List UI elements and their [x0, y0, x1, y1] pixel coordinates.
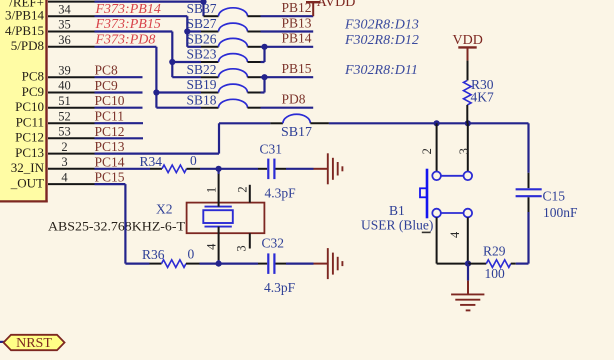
svg-text:SB22: SB22: [187, 62, 217, 77]
svg-text:PC14: PC14: [95, 154, 125, 169]
ground (button): [451, 281, 484, 311]
svg-text:2: 2: [236, 186, 250, 192]
svg-text:R36: R36: [142, 247, 165, 262]
wire PB12: [261, 15, 314, 17]
junction button bottom: [465, 261, 471, 267]
wire pin36 to SB19/SB18 riser: [95, 47, 202, 108]
pin 4: [48, 170, 95, 184]
svg-text:C31: C31: [260, 141, 283, 156]
solder bridge SB26: [187, 31, 261, 46]
junction PB14/SB23: [261, 44, 267, 50]
svg-text:C32: C32: [262, 235, 285, 250]
svg-text:53: 53: [58, 125, 71, 139]
wire PC15 to R36: [95, 184, 150, 264]
wire SB19 to PB15: [261, 77, 265, 92]
svg-text:4/PB15: 4/PB15: [5, 23, 44, 38]
svg-text:PB13: PB13: [282, 15, 312, 30]
svg-text:PC9: PC9: [22, 84, 44, 99]
ground (C31, rotated): [314, 153, 343, 184]
svg-text:1: 1: [204, 187, 218, 193]
svg-text:B1: B1: [389, 203, 405, 218]
pin VREF+: [48, 1, 95, 3]
svg-text:3/PB14: 3/PB14: [5, 8, 45, 23]
pin 35: [48, 18, 95, 32]
svg-text:2: 2: [420, 148, 434, 154]
pin 53: [48, 125, 95, 139]
capacitor C31: [258, 141, 296, 200]
solder bridge SB23: [187, 47, 261, 62]
crystal pin 1: [204, 169, 218, 207]
svg-text:5/PD8: 5/PD8: [11, 38, 44, 53]
pin 3: [48, 155, 95, 169]
wire PC13 to SB17: [95, 123, 271, 153]
svg-text:2: 2: [61, 140, 67, 154]
svg-text:4: 4: [448, 231, 462, 238]
svg-text:X2: X2: [156, 202, 173, 217]
svg-text:4.3pF: 4.3pF: [264, 280, 296, 295]
svg-text:PB15: PB15: [282, 61, 312, 76]
svg-text:100nF: 100nF: [543, 205, 578, 220]
junction pin34 riser: [184, 28, 190, 34]
junction OSC32_IN: [216, 166, 222, 172]
svg-text:PC10: PC10: [95, 93, 125, 108]
svg-text:PC13: PC13: [95, 139, 125, 154]
svg-text:F373:PB14: F373:PB14: [95, 2, 161, 17]
wire PC8 stub: [95, 76, 143, 78]
pin 34: [48, 2, 95, 16]
svg-text:USER (Blue): USER (Blue): [361, 217, 433, 232]
svg-text:SB26: SB26: [187, 31, 217, 46]
svg-text:3: 3: [235, 245, 249, 251]
svg-text:PC8: PC8: [95, 63, 119, 78]
wire PB14: [261, 46, 314, 48]
svg-text:NRST: NRST: [16, 336, 52, 351]
wire PC9 stub: [95, 91, 143, 93]
solder bridge SB27: [187, 16, 261, 31]
wire SB23 to PB14: [261, 47, 265, 62]
wire C32 to GND: [286, 263, 314, 265]
crystal pin 2: [236, 185, 250, 203]
svg-text:4K7: 4K7: [471, 90, 494, 105]
crystal X2: [187, 203, 265, 234]
junction PB15/SB19: [261, 74, 267, 80]
resistor R34: [140, 153, 201, 173]
capacitor C32: [258, 235, 296, 295]
svg-text:4: 4: [61, 170, 68, 184]
wire VREF+ top: [95, 0, 204, 16]
pin 2: [48, 140, 95, 154]
wire R36 to C32: [200, 263, 259, 265]
svg-text:PC12: PC12: [95, 124, 125, 139]
svg-text:F373:PD8: F373:PD8: [95, 33, 156, 48]
wire R29 to C15: [516, 263, 529, 265]
power port VDD: [453, 33, 483, 61]
svg-text:PD8: PD8: [282, 92, 306, 107]
svg-text:0: 0: [188, 247, 195, 262]
svg-text:40: 40: [58, 79, 71, 93]
svg-text:52: 52: [58, 109, 71, 123]
svg-text:R29: R29: [483, 244, 506, 259]
svg-text:PC11: PC11: [16, 115, 44, 130]
solder bridge SB22: [187, 62, 261, 77]
mark under label: [422, 231, 431, 233]
svg-text:39: 39: [58, 63, 71, 77]
solder bridge SB17: [270, 114, 329, 139]
svg-text:F302R8:D11: F302R8:D11: [344, 63, 418, 78]
wire PB13: [261, 30, 314, 32]
wire GND drop: [467, 264, 469, 281]
svg-text:C15: C15: [543, 189, 566, 204]
wire button node: [329, 122, 529, 124]
svg-text:F373:PB15: F373:PB15: [95, 17, 161, 32]
wire PC12 stub: [95, 137, 144, 139]
resistor R30: [464, 61, 494, 124]
junction button left: [434, 120, 440, 126]
svg-text:35: 35: [58, 18, 71, 32]
svg-text:PC12: PC12: [15, 130, 44, 145]
svg-text:4.3pF: 4.3pF: [265, 185, 297, 200]
svg-text:3: 3: [61, 155, 67, 169]
junction pin36 riser: [153, 89, 159, 95]
resistor R36: [142, 247, 200, 268]
svg-text:SB27: SB27: [187, 16, 217, 31]
svg-text:PC11: PC11: [95, 109, 125, 124]
svg-text:SB17: SB17: [281, 124, 312, 139]
svg-text:F302R8:D13: F302R8:D13: [344, 18, 419, 33]
svg-text:F302R8:D12: F302R8:D12: [344, 33, 419, 48]
wire NRST stub: [0, 341, 4, 343]
svg-text:100: 100: [485, 266, 506, 281]
svg-text:PC9: PC9: [95, 78, 119, 93]
svg-text:51: 51: [58, 94, 71, 108]
wire PC11 stub: [95, 122, 144, 124]
svg-text:PC10: PC10: [15, 99, 44, 114]
wire C31 to GND: [286, 168, 314, 170]
svg-text:PC13: PC13: [15, 145, 44, 160]
solder bridge SB18: [187, 92, 261, 107]
pin 39: [48, 63, 95, 77]
crystal pin 3: [235, 233, 250, 251]
svg-text:VDD: VDD: [453, 33, 483, 48]
wire SB37 left: [204, 15, 219, 17]
wire PC10 stub: [95, 107, 143, 109]
svg-text:AVDD: AVDD: [317, 0, 356, 10]
svg-text:4: 4: [204, 243, 218, 250]
svg-text:3: 3: [457, 148, 471, 154]
svg-text:34: 34: [58, 2, 71, 16]
pin 51: [48, 94, 95, 108]
wire PD8: [261, 107, 314, 109]
svg-text:_OUT: _OUT: [10, 176, 44, 191]
junction pin35 riser: [169, 59, 175, 65]
junction top: [200, 0, 206, 5]
IC body (yellow, clipped at left edge): [0, 0, 48, 202]
svg-text:0: 0: [190, 153, 197, 168]
pushbutton B1: [420, 123, 472, 263]
svg-text:PC15: PC15: [95, 170, 125, 185]
solder bridge SB37: [187, 1, 261, 16]
wire pin35 to SB23/SB22 riser: [95, 32, 202, 78]
svg-text:R34: R34: [140, 154, 163, 169]
junction button right: [465, 120, 471, 126]
power port AVDD: [306, 0, 355, 16]
svg-text:SB37: SB37: [187, 1, 217, 16]
pin 40: [48, 79, 95, 93]
wire pin34 to SB27/SB26 riser: [95, 16, 202, 47]
wire PC14 to R34: [95, 168, 151, 170]
svg-text:36: 36: [58, 33, 71, 47]
capacitor C15: [516, 123, 578, 263]
svg-text:SB23: SB23: [187, 47, 217, 62]
svg-text:PB14: PB14: [282, 31, 312, 46]
svg-text:SB19: SB19: [187, 77, 217, 92]
solder bridge SB19: [187, 77, 261, 92]
pin 36: [48, 33, 95, 47]
resistor R29: [468, 244, 516, 281]
ground (C32, rotated): [314, 248, 343, 279]
svg-text:PC8: PC8: [22, 69, 44, 84]
port NRST: [4, 335, 65, 351]
crystal pin 4: [204, 227, 218, 264]
wire R34 to C31: [200, 168, 258, 170]
pin 52: [48, 109, 95, 123]
svg-text:32_IN: 32_IN: [11, 160, 45, 175]
svg-text:SB18: SB18: [187, 92, 217, 107]
svg-text:ABS25-32.768KHZ-6-T: ABS25-32.768KHZ-6-T: [48, 218, 185, 233]
wire PB15: [261, 76, 314, 78]
junction OSC32_OUT: [216, 261, 222, 267]
